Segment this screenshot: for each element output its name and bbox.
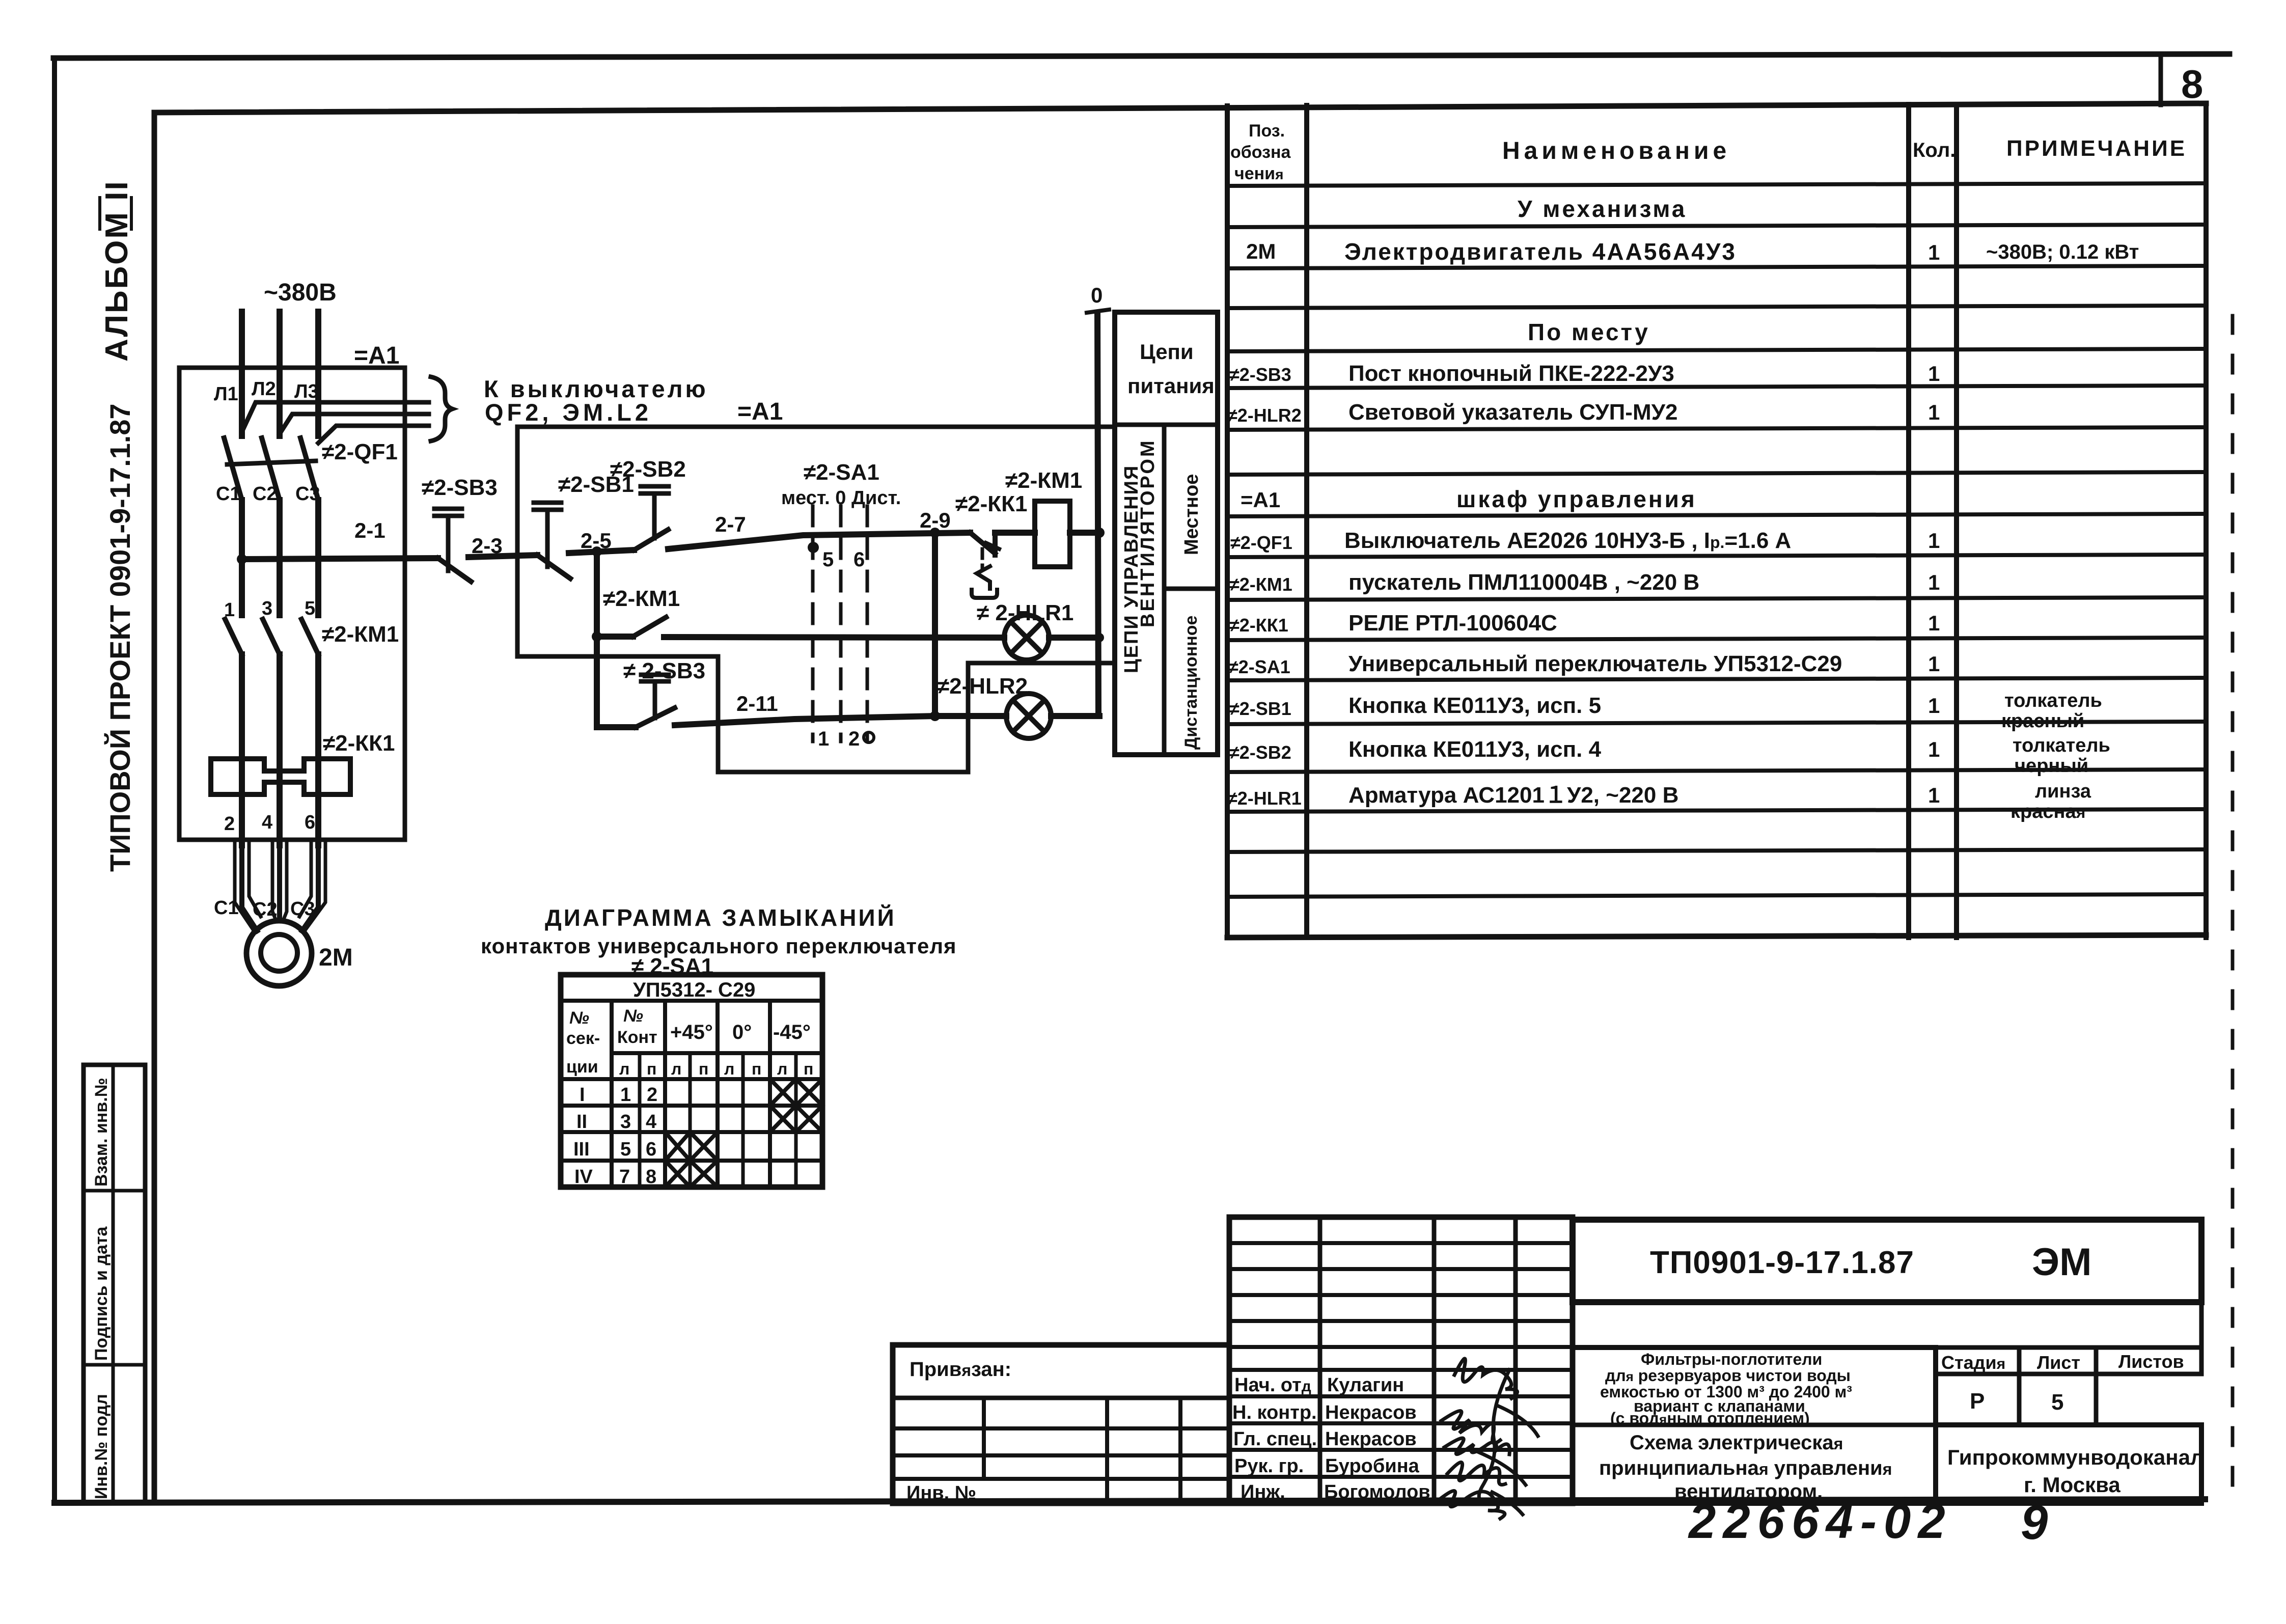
wire row3 left (597, 724, 636, 730)
rotated label ТИПОВОЙ ПРОЕКТ 0901-9-17.1.87 (104, 403, 136, 872)
stack grid narrow row 5 (1229, 1345, 1573, 1349)
wire 2-5 (569, 550, 634, 553)
svg-text:≠ 2-HLR1: ≠ 2-HLR1 (977, 600, 1073, 625)
neutral rail 0 (1097, 313, 1098, 716)
svg-text:для резервуаров чистои воды: для резервуаров чистои воды (1605, 1366, 1851, 1385)
svg-text:Рук. гр.: Рук. гр. (1234, 1455, 1304, 1477)
svg-text:Универсальный переключатель: Универсальный переключатель УП5312-С29 (1348, 651, 1842, 676)
parts table row line 1 (1227, 183, 2206, 186)
description project text (1600, 1350, 1852, 1427)
svg-text:РЕЛЕ РТЛ-100604С: РЕЛЕ РТЛ-100604С (1348, 611, 1557, 636)
breaker QF1 pole B blade (262, 438, 280, 500)
svg-text:1: 1 (620, 1084, 631, 1106)
svg-text:Взам. инв.№: Взам. инв.№ (92, 1078, 111, 1187)
rotated label Инв.№ подл (92, 1394, 111, 1499)
switch SA1 dashed line 2 (839, 506, 843, 741)
parts table row line 18 (1227, 894, 2206, 897)
signature squiggle 1 (1454, 1359, 1518, 1398)
svg-text:≠2-HLR1: ≠2-HLR1 (1227, 788, 1302, 809)
svg-text:6: 6 (305, 812, 315, 833)
svg-text:Л3: Л3 (294, 381, 319, 402)
svg-text:п: п (804, 1060, 813, 1078)
privyazan vertical 1 (982, 1398, 986, 1479)
diagram table column Nkont line (663, 1001, 667, 1187)
brace for QF2 tap (431, 377, 452, 441)
svg-text:≠2-SА1: ≠2-SА1 (1228, 656, 1290, 677)
svg-text:Поз.: Поз. (1249, 121, 1285, 141)
pushbutton SB3 second contact blade (636, 708, 675, 727)
rotated label АЛЬБОМ II (99, 180, 134, 362)
header label N kont (617, 1006, 657, 1047)
svg-text:≠2-КМ1: ≠2-КМ1 (322, 622, 399, 647)
parts table row line 4 (1227, 306, 2206, 308)
lamp HLR1 (1004, 615, 1049, 660)
svg-text:Инв. №: Инв. № (906, 1482, 976, 1504)
breaker QF1 trip bar (227, 461, 316, 464)
privyazan box outline (893, 1345, 1229, 1503)
rotated label Взам.инв.№ (92, 1078, 111, 1187)
svg-text:Нач. отд: Нач. отд (1234, 1374, 1311, 1396)
diagram table subcol split 3 (741, 1053, 745, 1187)
wire phase A lower (239, 654, 245, 845)
svg-text:Некрасов: Некрасов (1325, 1428, 1417, 1450)
parts table col divider prim (1954, 104, 1959, 938)
wire phase B mid (277, 500, 283, 615)
relay KK1 thermal hook (972, 566, 997, 598)
svg-text:IV: IV (574, 1166, 593, 1188)
svg-text:линза: линза (2035, 781, 2091, 802)
header poz oboznachenie (1230, 121, 1291, 183)
wire phase B to motor (277, 794, 282, 921)
svg-text:≠2-QF1: ≠2-QF1 (1230, 532, 1292, 553)
stack grid name row 1 line (1229, 1394, 1573, 1398)
wire HLR1 to rail (1049, 635, 1099, 641)
contactor KM1 pole B blade (263, 619, 280, 654)
stack grid vertical b (1432, 1217, 1437, 1503)
pushbutton SB3 actuator (434, 509, 462, 571)
node 2-9 junction (930, 528, 940, 538)
circuits annotation header divider (1115, 423, 1218, 427)
diagram table subcol split 1 (638, 1053, 642, 1187)
stack grid vertical c (1513, 1217, 1518, 1503)
wire branch vertical 2-5 down (594, 552, 600, 727)
privyazan vertical 3 (1178, 1398, 1182, 1503)
X marks row IV plus45 (665, 1161, 718, 1187)
svg-text:л: л (619, 1060, 629, 1078)
svg-text:3: 3 (262, 598, 272, 619)
svg-text:~380В; 0.12 кВт: ~380В; 0.12 кВт (1986, 241, 2139, 263)
diagram table subcol split 2 (688, 1053, 692, 1187)
svg-text:С2: С2 (253, 899, 278, 920)
svg-text:Электродвигатель 4АА56А4У3: Электродвигатель 4АА56А4У3 (1344, 238, 1737, 265)
diagram table row I line (561, 1104, 822, 1108)
svg-text:≠2-КК1: ≠2-КК1 (955, 491, 1027, 516)
svg-text:г. Москва: г. Москва (2024, 1473, 2120, 1497)
svg-text:обозна: обозна (1230, 143, 1291, 162)
svg-text:4: 4 (262, 812, 272, 833)
svg-text:ПРИМЕЧАНИЕ: ПРИМЕЧАНИЕ (2006, 136, 2187, 161)
parts table row line 12 (1227, 638, 2206, 640)
drawing area left line (152, 113, 157, 1501)
left margin stamp column box (84, 1065, 145, 1502)
parts table row line 6 (1227, 386, 2206, 388)
svg-text:Л1: Л1 (214, 383, 238, 405)
breaker QF1 pole A blade (224, 438, 242, 500)
svg-text:~380В: ~380В (264, 279, 337, 306)
wire HLR2 to rail (1051, 713, 1099, 719)
cable funnel phase B (272, 843, 287, 919)
svg-text:Р: Р (1970, 1389, 1985, 1414)
svg-text:Лист: Лист (2037, 1352, 2080, 1373)
titleblock description box (1573, 1347, 1936, 1503)
parts table row line 10 (1227, 555, 2206, 557)
tap wire to QF2 phase B (280, 414, 429, 434)
svg-text:Цепи: Цепи (1140, 340, 1194, 364)
overline of II in АЛЬБОМ II (98, 198, 101, 229)
svg-text:п: п (752, 1060, 761, 1078)
svg-text:≠2-SВ2: ≠2-SВ2 (610, 457, 686, 482)
parts table row line 14 (1227, 722, 2206, 724)
svg-text:≠2-SВ3: ≠2-SВ3 (422, 475, 498, 500)
svg-text:ЭМ: ЭМ (2032, 1241, 2091, 1284)
svg-text:Кол.: Кол. (1913, 139, 1956, 161)
svg-text:питания: питания (1127, 374, 1215, 398)
contactor KM1 pole A blade (225, 619, 242, 654)
rotated label ventilyatorom (1137, 438, 1159, 627)
stack grid name row 2 line (1229, 1421, 1573, 1425)
svg-text:≠2-QF1: ≠2-QF1 (322, 439, 398, 464)
svg-text:Кулагин: Кулагин (1327, 1374, 1404, 1396)
svg-text:2: 2 (647, 1084, 657, 1106)
parts table row line 13 (1227, 678, 2206, 680)
LP row labels (619, 1060, 813, 1078)
svg-text:п: п (699, 1060, 708, 1078)
parts table row line 15 (1227, 769, 2206, 772)
svg-text:2: 2 (848, 728, 860, 750)
svg-text:л: л (724, 1060, 734, 1078)
svg-text:8: 8 (2181, 62, 2203, 106)
parts table row line 16 (1227, 809, 2206, 812)
svg-text:Кнопка КЕ011У3, исп. 5: Кнопка КЕ011У3, исп. 5 (1348, 693, 1601, 718)
privyazan row line 1 (893, 1426, 1229, 1430)
svg-text:Дистанционное: Дистанционное (1181, 616, 1201, 750)
diagram table column m45 line (768, 1001, 772, 1187)
svg-text:≠2-SВ3: ≠2-SВ3 (1229, 364, 1291, 385)
wire phase C to motor (302, 794, 318, 931)
stack grid narrow row 1 (1229, 1241, 1573, 1245)
node row2 left junction (592, 631, 602, 642)
svg-text:л: л (671, 1060, 681, 1078)
svg-text:1: 1 (1928, 240, 1940, 264)
outer frame left line (52, 58, 57, 1502)
parts table bottom line (1227, 935, 2206, 938)
cable funnel phase A (235, 843, 261, 929)
stadiya list divider (2017, 1347, 2022, 1425)
switch SA1 contact circle row3 (864, 732, 874, 742)
parts table row line 2 (1227, 225, 2206, 227)
label Tsepi pitaniya (1127, 340, 1215, 398)
parts table row line 5 (1227, 349, 2206, 351)
svg-text:0°: 0° (732, 1021, 752, 1043)
svg-text:С2: С2 (253, 483, 278, 505)
svg-text:2М: 2М (1246, 239, 1276, 263)
contactor coil KM1 (1035, 501, 1070, 567)
svg-text:УП5312- С29: УП5312- С29 (633, 979, 755, 1001)
pushbutton SB3 stop contact blade (438, 558, 471, 582)
pushbutton SB1 stop contact blade (537, 555, 570, 579)
switch SA1 dashed line 1 (811, 506, 815, 741)
thermal relay KK1 heater band (211, 759, 350, 794)
switch SA1 contact dot row1 (808, 542, 819, 553)
svg-text:ВЕНТИЛЯТОРОМ: ВЕНТИЛЯТОРОМ (1137, 438, 1159, 627)
svg-text:≠2-КК1: ≠2-КК1 (323, 731, 395, 756)
svg-text:+45°: +45° (670, 1021, 713, 1043)
svg-text:≠2-SВ2: ≠2-SВ2 (1229, 742, 1291, 763)
switch SA1 dashed line 3 (866, 506, 869, 741)
svg-text:черный: черный (2015, 755, 2088, 777)
svg-text:5: 5 (620, 1139, 631, 1160)
wire row2 to HLR1 (664, 637, 1004, 638)
wire branch vertical 2-9 down (932, 533, 938, 716)
svg-text:Подпись и дата: Подпись и дата (92, 1226, 111, 1361)
diagram table row II line (561, 1130, 822, 1134)
pushbutton SB2 actuator (641, 486, 669, 538)
stack grid narrow row 2 (1229, 1267, 1573, 1271)
svg-text:АЛЬБОМ II: АЛЬБОМ II (99, 180, 134, 362)
svg-text:№: № (623, 1006, 643, 1026)
svg-text:I: I (580, 1084, 585, 1106)
header label N sek (566, 1008, 600, 1077)
row III labels (573, 1139, 656, 1160)
row SB1 note (2001, 690, 2102, 732)
pushbutton SB3 second actuator (641, 675, 669, 718)
svg-text:№: № (569, 1008, 589, 1028)
svg-text:5: 5 (305, 598, 315, 619)
svg-text:9: 9 (2021, 1495, 2048, 1550)
svg-text:Некрасов: Некрасов (1325, 1402, 1417, 1423)
pushbutton SB2 start contact blade (634, 530, 668, 550)
svg-text:толкатель: толкатель (2013, 735, 2110, 756)
svg-text:≠ 2-SВ3: ≠ 2-SВ3 (623, 658, 705, 683)
svg-text:1: 1 (1928, 737, 1940, 761)
svg-text:принципиальная управления: принципиальная управления (1599, 1457, 1892, 1479)
organization cell (1936, 1425, 2201, 1503)
svg-text:1: 1 (1928, 694, 1940, 718)
diagram table header bottom line (612, 1051, 822, 1055)
wire phase C lower (315, 654, 321, 845)
svg-text:пускатель ПМЛ110004В ,: пускатель ПМЛ110004В , ~220 В (1348, 570, 1699, 595)
tap wire to QF2 phase C (318, 426, 429, 443)
node 2-5 junction (592, 546, 602, 557)
svg-text:С1: С1 (216, 483, 241, 505)
svg-text:ции: ции (566, 1057, 598, 1077)
tap wire to QF2 phase A (242, 402, 429, 432)
control cabinet box =A1 outline (517, 427, 1115, 772)
wire phase A top (239, 312, 245, 436)
svg-text:2-7: 2-7 (715, 512, 746, 536)
parts table row line 8 (1227, 472, 2206, 475)
cable funnel phase C (299, 843, 325, 929)
relay KK1 contact tick (986, 543, 999, 549)
stadiya value row bottom (1936, 1423, 2201, 1427)
svg-text:1: 1 (1928, 783, 1940, 807)
titleblock band below big box (1573, 1302, 2201, 1347)
X marks row II minus45 (770, 1106, 822, 1132)
svg-text:≠2-КК1: ≠2-КК1 (1229, 615, 1288, 636)
parts table right edge (2204, 103, 2209, 938)
svg-text:ТП0901-9-17.1.87: ТП0901-9-17.1.87 (1650, 1245, 1914, 1280)
svg-text:2-1: 2-1 (354, 518, 385, 542)
svg-text:1: 1 (1928, 570, 1940, 594)
svg-text:сек-: сек- (566, 1029, 600, 1048)
circuits annotation table outline (1115, 312, 1218, 755)
relay KK1 thermal dashes (981, 549, 984, 569)
rotated label Distantsionnoe (1181, 616, 1201, 750)
svg-text:≠2-КМ1: ≠2-КМ1 (1005, 468, 1082, 493)
stack grid narrow row 4 (1229, 1319, 1573, 1323)
node 2-9 down junction (930, 711, 940, 721)
privyazan row line 2 (893, 1453, 1229, 1457)
svg-text:≠2-HLR2: ≠2-HLR2 (1227, 405, 1302, 426)
wire phase C top (315, 312, 321, 436)
diagram table column Nsek line (610, 1001, 614, 1187)
signature squiggle 5 (1437, 1491, 1505, 1519)
svg-text:2: 2 (224, 813, 235, 835)
svg-text:Гл. спец.: Гл. спец. (1233, 1428, 1317, 1450)
svg-text:Конт: Конт (617, 1028, 657, 1047)
rotated label Mestnoe (1181, 474, 1202, 555)
signature squiggle 4 (1447, 1462, 1505, 1484)
svg-text:1: 1 (1928, 611, 1940, 635)
svg-text:По месту: По месту (1528, 319, 1650, 345)
stack grid narrow row 6 (1229, 1368, 1573, 1372)
wire phase C mid (315, 500, 321, 615)
signature flourish vertical (1477, 1370, 1538, 1515)
titleblock stack grid outline (1229, 1217, 1573, 1503)
svg-text:-45°: -45° (773, 1021, 811, 1043)
svg-text:Инв.№ подл: Инв.№ подл (92, 1394, 111, 1499)
svg-text:толкатель: толкатель (2004, 690, 2102, 711)
rotated label Подпись и дата (92, 1226, 111, 1361)
svg-text:Наименование: Наименование (1502, 137, 1730, 164)
relay KK1 contact blade (970, 533, 995, 555)
diagram table LP row bottom line (561, 1077, 822, 1081)
svg-text:≠2-SВ1: ≠2-SВ1 (1229, 698, 1291, 719)
svg-text:4: 4 (646, 1111, 656, 1133)
svg-text:1: 1 (1928, 529, 1940, 553)
wire coil to rail (1070, 530, 1099, 536)
svg-text:QF2, ЭМ.L2: QF2, ЭМ.L2 (485, 399, 652, 426)
parts table row line 3 (1227, 266, 2206, 268)
X marks row III plus45 (665, 1132, 718, 1161)
svg-text:чения: чения (1234, 164, 1283, 183)
breaker QF1 pole C blade (300, 438, 318, 500)
X marks row I minus45 (770, 1079, 822, 1106)
stamp column divider 2 (84, 1363, 145, 1367)
svg-text:6: 6 (646, 1139, 656, 1160)
pushbutton SB1 actuator (534, 503, 561, 567)
contactor KM1 aux contact blade (633, 617, 666, 637)
svg-text:1: 1 (1928, 652, 1940, 676)
circuits annotation local remote divider (1164, 587, 1218, 591)
rotated label tsepi upravleniya (1121, 465, 1142, 673)
wire phase A mid (239, 500, 245, 615)
titleblock big box (1573, 1220, 2201, 1302)
parts table col divider kol (1906, 104, 1911, 938)
stamp column divider 1 (84, 1189, 145, 1193)
node control tap on phase A (237, 554, 247, 564)
motor 2M outer circle (246, 921, 312, 986)
svg-text:Фильтры-поглотители: Фильтры-поглотители (1641, 1350, 1822, 1368)
neutral rail top tick (1087, 310, 1109, 313)
svg-text:Н. контр.: Н. контр. (1232, 1402, 1317, 1423)
underline of II in АЛЬБОМ II (130, 198, 133, 229)
svg-text:=А1: =А1 (737, 398, 783, 425)
description schema text (1599, 1432, 1892, 1503)
row IV labels (574, 1166, 656, 1188)
titleblock description divider (1573, 1423, 1936, 1427)
svg-text:2М: 2М (319, 944, 353, 971)
power cabinet box =A1 (179, 368, 405, 840)
svg-text:6: 6 (853, 548, 865, 571)
svg-text:≠2-HLR2: ≠2-HLR2 (937, 674, 1028, 699)
svg-text:1: 1 (1928, 362, 1940, 386)
svg-text:≠2-КМ1: ≠2-КМ1 (1229, 574, 1292, 595)
svg-text:Арматура АС1201１У2, ~22: Арматура АС1201１У2, ~220 В (1348, 783, 1678, 808)
svg-text:ТИПОВОЙ ПРОЕКТ 0901-9-17.1.87: ТИПОВОЙ ПРОЕКТ 0901-9-17.1.87 (104, 403, 136, 872)
svg-text:С1: С1 (214, 897, 239, 919)
parts table left edge (1225, 106, 1230, 938)
circuits annotation column divider (1162, 425, 1167, 755)
wire 2-7 (668, 533, 970, 549)
lamp HLR2 (1006, 694, 1051, 738)
svg-text:Буробина: Буробина (1325, 1455, 1420, 1477)
svg-text:ДИАГРАММА ЗАМЫКАНИЙ: ДИАГРАММА ЗАМЫКАНИЙ (545, 904, 896, 931)
wire phase A to motor (242, 794, 257, 931)
privyazan row line 3 (893, 1477, 1229, 1481)
svg-text:2-11: 2-11 (736, 692, 778, 715)
signature squiggle 3 (1444, 1438, 1509, 1454)
parts table row line 9 (1227, 514, 2206, 516)
svg-text:0: 0 (1091, 283, 1103, 307)
parts table row line 17 (1227, 849, 2206, 852)
outer frame bottom line (54, 1499, 2205, 1503)
svg-text:контактов универсального пер: контактов универсального переключателя (481, 934, 957, 958)
svg-text:22664-02: 22664-02 (1688, 1494, 1952, 1549)
svg-text:Инж.: Инж. (1241, 1481, 1285, 1503)
row HLR1 note (2010, 781, 2091, 822)
svg-text:Гипрокоммунводоканал: Гипрокоммунводоканал (1947, 1445, 2204, 1469)
stack grid name row 3 line (1229, 1448, 1573, 1452)
svg-text:2-3: 2-3 (472, 534, 503, 558)
svg-text:Кнопка КЕ011У3, исп. 4: Кнопка КЕ011У3, исп. 4 (1348, 737, 1602, 762)
drawing area top line (154, 103, 2206, 113)
svg-text:У механизма: У механизма (1518, 196, 1687, 222)
stadiya list listov header row (1936, 1347, 2201, 1374)
list listov divider (2094, 1347, 2099, 1425)
row II labels (576, 1111, 656, 1133)
outer frame top line (53, 54, 2229, 58)
row I labels (580, 1084, 657, 1106)
wire control feed 2-1 (242, 558, 438, 559)
privyazan vertical 2 (1105, 1398, 1109, 1503)
svg-text:красный: красный (2001, 710, 2084, 732)
motor 2M inner circle (261, 934, 297, 971)
svg-text:=А1: =А1 (354, 342, 399, 369)
svg-text:5: 5 (2051, 1390, 2063, 1415)
svg-text:п: п (647, 1060, 656, 1078)
svg-text:шкаф управления: шкаф управления (1456, 486, 1697, 512)
